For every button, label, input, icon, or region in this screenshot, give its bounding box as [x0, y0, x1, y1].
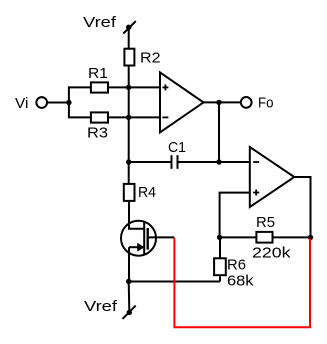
svg-text:R6: R6: [227, 257, 246, 274]
wire Vref to R2: [128, 27, 130, 48]
wire C1 node down to R4: [128, 162, 130, 184]
svg-text:Vi: Vi: [15, 95, 29, 112]
wire bottom node to Vref: [128, 282, 131, 311]
wire to R3 left: [68, 116, 91, 118]
node C1 left junction: [126, 159, 131, 164]
wire R1 to op-amp plus input: [109, 86, 160, 88]
resistor R1: [91, 82, 108, 92]
svg-text:68k: 68k: [227, 272, 254, 289]
resistor R6: [214, 258, 226, 275]
op-amp U1: [160, 72, 204, 132]
wire input vertical split: [68, 87, 70, 117]
op-amp U2: [250, 147, 294, 207]
node R5 left junction: [217, 235, 222, 240]
wire rail R3 node to C1 node: [128, 117, 130, 162]
svg-text:Vref: Vref: [83, 14, 117, 31]
wire U2 output: [294, 177, 310, 237]
wire R2 to R1 node: [128, 67, 130, 88]
power Vref top: [83, 14, 136, 34]
transistor Q1: [121, 221, 174, 256]
wire Vi to input node: [48, 102, 69, 104]
node R2 bottom junction: [126, 85, 131, 90]
node C1 right junction: [216, 159, 221, 164]
resistor R3: [91, 112, 108, 122]
node output junction: [216, 100, 221, 105]
wire R6 bottom lead: [219, 276, 221, 281]
svg-text:R2: R2: [140, 49, 161, 66]
resistor R4: [124, 184, 135, 201]
node input junction: [66, 100, 71, 105]
svg-text:Vref: Vref: [84, 298, 118, 315]
wire R4 to transistor drain: [128, 202, 130, 229]
power Vref bottom: [84, 298, 136, 319]
svg-text:R5: R5: [256, 214, 275, 231]
svg-text:R1: R1: [88, 65, 108, 82]
wire R5 left lead: [220, 236, 256, 238]
terminal Fo: [241, 97, 252, 108]
wire rail R1 node to R3 node: [128, 87, 130, 117]
svg-text:C1: C1: [168, 139, 186, 156]
svg-text:R4: R4: [138, 184, 156, 201]
wire to R1 left: [68, 86, 91, 88]
wire C1 left lead: [129, 161, 172, 163]
wire transistor source down: [128, 247, 130, 281]
svg-text:Fo: Fo: [258, 95, 274, 112]
wire C1 right lead: [178, 161, 250, 163]
wire output down to C1 row: [218, 102, 220, 162]
wire R5 right lead: [273, 236, 310, 238]
terminal Vi: [36, 97, 47, 108]
wire op-amp U1 output: [204, 101, 241, 103]
capacitor C1: [168, 139, 186, 169]
wire R3 to op-amp minus input: [109, 116, 160, 118]
wire bottom node to R6: [129, 281, 220, 283]
wire gate feedback (red net): [174, 238, 310, 327]
wire U2 plus input feedback: [220, 193, 250, 238]
resistor R5: [256, 232, 272, 243]
resistor R2: [124, 49, 134, 66]
node bottom junction: [126, 279, 131, 284]
wire R6 top to R5 node: [219, 237, 221, 258]
node R5 right junction: [308, 235, 313, 240]
node R3 rail junction: [126, 115, 131, 120]
svg-text:220k: 220k: [252, 244, 291, 261]
svg-text:R3: R3: [87, 125, 108, 142]
